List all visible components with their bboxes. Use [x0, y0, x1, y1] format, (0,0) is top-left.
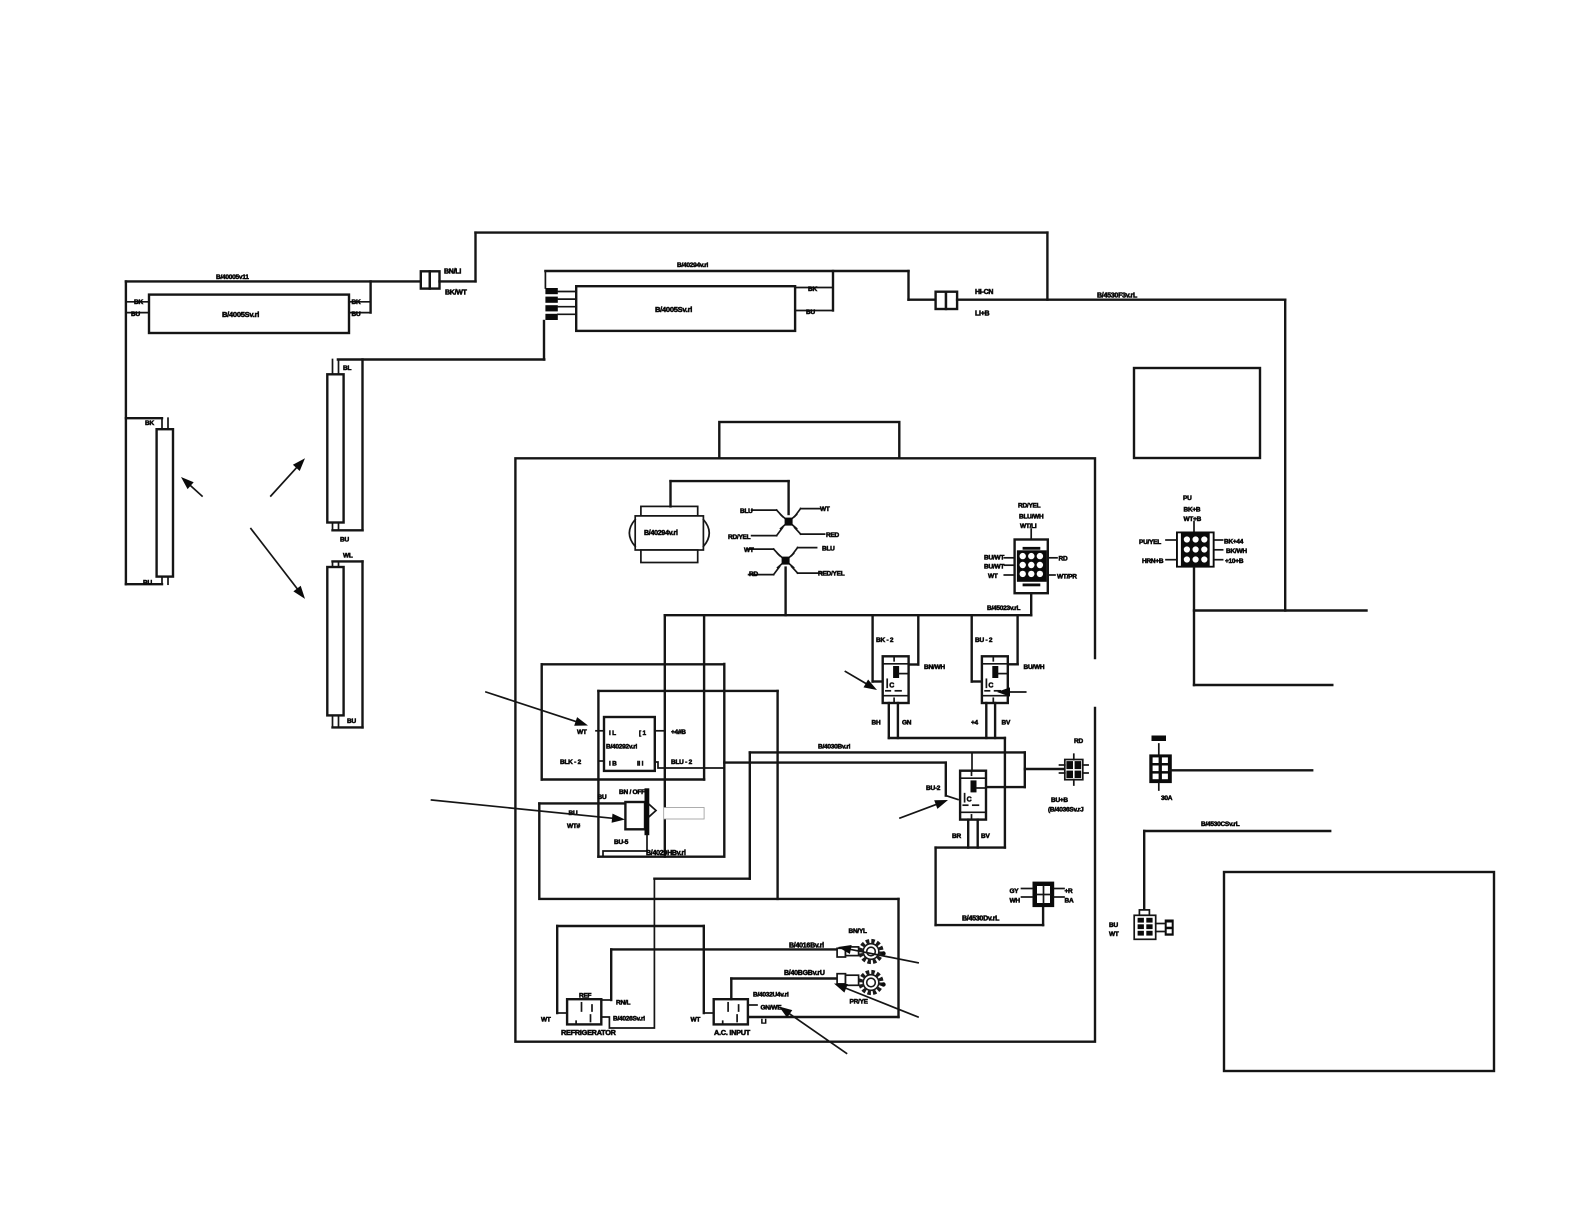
- svg-text:BU/WT: BU/WT: [984, 555, 1004, 562]
- svg-text:B/4016Bv.rl: B/4016Bv.rl: [789, 943, 824, 950]
- splice S2: [749, 548, 822, 575]
- wire box2 bottom: [598, 856, 724, 858]
- wire H1 top: [1193, 522, 1195, 532]
- svg-text:30A: 30A: [1161, 795, 1173, 802]
- lamp B/4007 tube lower-right: [327, 567, 343, 715]
- wire box1 bottom: [542, 778, 704, 780]
- svg-text:B/40292v.rl: B/40292v.rl: [606, 744, 638, 751]
- svg-text:WT+B: WT+B: [1184, 516, 1202, 523]
- svg-text:WT: WT: [744, 547, 754, 554]
- lamp B/4005S top-left: [149, 295, 349, 333]
- svg-text:(B/4036Sv.rJ: (B/4036Sv.rJ: [1048, 807, 1084, 814]
- svg-text:BU - 2: BU - 2: [975, 637, 993, 644]
- wire lamp4 top pins: [333, 561, 339, 567]
- wire lamp3 top run: [338, 358, 544, 360]
- svg-text:BU: BU: [806, 309, 815, 316]
- title label box: [719, 422, 899, 458]
- wire lamp1 pin stub R2: [349, 312, 371, 314]
- svg-text:B/4032U4v.rl: B/4032U4v.rl: [753, 992, 789, 999]
- wire down right: [1004, 738, 1006, 848]
- svg-text:GN/WE: GN/WE: [761, 1005, 783, 1012]
- terminal ring2: [837, 972, 886, 993]
- wire lamp5 bottom pins: [162, 577, 168, 585]
- connector CN2 inline: [936, 292, 958, 309]
- wire bottom run: [936, 924, 1044, 926]
- wire relay2 pin2: [1008, 615, 1018, 664]
- svg-text:BK: BK: [352, 299, 361, 306]
- svg-text:C: C: [967, 797, 972, 804]
- connector G4 B/4530D: [1022, 882, 1065, 908]
- wire lamp4 top run: [333, 560, 363, 562]
- wire to connector CN2: [909, 299, 936, 301]
- wire relay1 pin2: [909, 615, 919, 664]
- svg-text:B/40294v.rl: B/40294v.rl: [644, 530, 678, 537]
- svg-text:BV: BV: [981, 833, 990, 840]
- svg-text:B/4026Sv.rl: B/4026Sv.rl: [613, 1016, 645, 1023]
- svg-text:BU: BU: [131, 311, 140, 318]
- wire lamp1 pin stub L1: [126, 301, 149, 303]
- svg-text:BA: BA: [1065, 898, 1074, 905]
- relay K1: [883, 656, 909, 703]
- svg-text:BK/WT: BK/WT: [445, 290, 468, 297]
- svg-text:BV: BV: [1002, 720, 1011, 727]
- lamp B/4007 tube upper-right: [327, 374, 343, 522]
- wire lamp1 pin stub R1: [349, 301, 371, 303]
- arrow to ring1: [838, 945, 918, 963]
- arrow to relay3: [900, 800, 948, 818]
- wire neutral drop L: [557, 926, 567, 1013]
- svg-text:BU-5: BU-5: [614, 839, 629, 846]
- svg-text:WT#: WT#: [567, 823, 581, 830]
- wire bus upper: [750, 751, 1025, 753]
- wire box2 top: [598, 690, 777, 692]
- wire S2 run: [1144, 830, 1330, 832]
- svg-text:B/4029HBv.rl: B/4029HBv.rl: [646, 850, 686, 857]
- wire to bus corner: [654, 752, 749, 878]
- label PU bar: [1152, 736, 1167, 742]
- svg-text:BU: BU: [143, 580, 152, 587]
- wire outlet enclosure top: [542, 898, 899, 900]
- svg-text:BU: BU: [347, 718, 356, 725]
- box placeholder R2: [1224, 872, 1494, 1071]
- svg-text:BK+B: BK+B: [1184, 507, 1201, 514]
- wire neutral run: [557, 925, 704, 927]
- svg-text:RD: RD: [749, 571, 758, 578]
- svg-text:C: C: [889, 682, 894, 689]
- svg-text:B/4005Sv.rl: B/4005Sv.rl: [655, 305, 692, 314]
- svg-text:BK: BK: [145, 420, 154, 427]
- svg-text:GN: GN: [902, 720, 912, 727]
- svg-text:WT: WT: [541, 1017, 551, 1024]
- svg-text:C: C: [988, 682, 993, 689]
- svg-text:Il I: Il I: [637, 761, 644, 768]
- wire drop relay2 coil: [972, 615, 982, 681]
- svg-text:I B: I B: [609, 761, 617, 768]
- wire lamp3 bottom pins: [333, 523, 339, 531]
- connector S2: [1134, 910, 1174, 939]
- connector P8 B/4036S: [1060, 754, 1089, 785]
- svg-text:B/40BGBv.rU: B/40BGBv.rU: [784, 970, 825, 977]
- wire AC stub: [749, 1004, 757, 1006]
- wire H1 right stubs: [1215, 540, 1223, 560]
- svg-text:BK - 2: BK - 2: [876, 637, 894, 644]
- wire splice to bus: [784, 568, 786, 616]
- svg-text:+10+B: +10+B: [1225, 558, 1244, 565]
- wire lamp1 right riser: [369, 281, 371, 312]
- svg-text:B/40005v11: B/40005v11: [216, 274, 249, 281]
- svg-text:+4: +4: [971, 720, 979, 727]
- wire switch feed: [539, 803, 625, 899]
- svg-text:WT: WT: [691, 1017, 701, 1024]
- main assembly box: [515, 458, 1095, 1041]
- arrow to module: [486, 692, 588, 726]
- svg-text:BU: BU: [340, 537, 349, 544]
- svg-text:B/40294v.rl: B/40294v.rl: [677, 262, 709, 269]
- wire lamp2 top run: [545, 270, 908, 272]
- wire AC hot riser: [731, 979, 837, 1000]
- arrow to lower lamp: [251, 529, 305, 599]
- wire block riser: [544, 271, 546, 288]
- svg-text:REF: REF: [579, 993, 592, 1000]
- wire motor to splice: [671, 481, 789, 514]
- svg-text:BN / OFF: BN / OFF: [619, 789, 645, 796]
- svg-text:B/4005Sv.rl: B/4005Sv.rl: [222, 310, 259, 319]
- svg-text:BR: BR: [952, 833, 961, 840]
- wire box1 top: [542, 663, 725, 665]
- wire lamp1 pin stub L2: [126, 312, 149, 314]
- wire switch bottom: [603, 835, 647, 857]
- svg-text:WT: WT: [820, 506, 830, 513]
- wire drop B: [703, 615, 705, 779]
- connector H1 hatched: [1176, 532, 1215, 568]
- lamp B/4005S top-center: [576, 286, 795, 331]
- svg-text:B/4530F3v.rL: B/4530F3v.rL: [1097, 293, 1138, 300]
- wire top feed lamp1: [126, 280, 421, 282]
- svg-text:RED: RED: [826, 532, 840, 539]
- wire to relay3 coil: [946, 763, 958, 800]
- wire module pin1 stub: [596, 730, 604, 732]
- wire module pin3 stub: [598, 760, 604, 762]
- arrow to upper lamp: [271, 458, 305, 496]
- svg-text:BLK - 2: BLK - 2: [560, 759, 582, 766]
- wire lamp5 top run: [126, 417, 162, 419]
- wire stub right 1: [1194, 609, 1367, 611]
- wire drop right: [1046, 233, 1048, 300]
- svg-text:WH: WH: [1010, 898, 1021, 905]
- wire lamp3 bottom run: [333, 529, 363, 531]
- svg-text:BN/WH: BN/WH: [924, 664, 945, 671]
- wire up to G4: [1042, 907, 1044, 925]
- arrow to switch: [432, 800, 626, 823]
- wire relay3 pins run: [936, 846, 1005, 848]
- wire relay2 bottom pins: [986, 703, 995, 738]
- svg-text:BU/WT: BU/WT: [984, 564, 1004, 571]
- wire CN2 to corner: [957, 299, 1285, 301]
- wire CN1 to riser: [440, 233, 476, 282]
- wire relay3 pin2: [988, 752, 1025, 787]
- svg-text:[ 1: [ 1: [639, 730, 646, 737]
- svg-text:A.C. INPUT: A.C. INPUT: [714, 1028, 751, 1037]
- svg-text:HI-CN: HI-CN: [975, 289, 993, 296]
- svg-text:BU/WH: BU/WH: [1024, 664, 1045, 671]
- svg-text:LI: LI: [761, 1019, 767, 1026]
- wire box2 left: [597, 691, 599, 857]
- svg-text:BK+44: BK+44: [1224, 539, 1244, 546]
- outlet refrigerator: [567, 999, 601, 1024]
- wire relay pins bus: [889, 737, 1005, 739]
- svg-text:BLU/WH: BLU/WH: [1019, 514, 1044, 521]
- svg-text:RD: RD: [1059, 556, 1068, 563]
- wire H1 bottom: [1193, 568, 1195, 685]
- svg-text:BU: BU: [1109, 922, 1118, 929]
- wire relay3 bottom pins: [968, 820, 978, 848]
- wire right drop: [1284, 300, 1286, 611]
- wire outlet enclosure right: [897, 899, 899, 1017]
- svg-text:RD/YEL: RD/YEL: [1018, 503, 1041, 510]
- wire module pin2 stub: [655, 730, 665, 732]
- relay K2: [982, 656, 1008, 703]
- svg-text:BN/LI: BN/LI: [444, 269, 461, 276]
- svg-text:PU: PU: [1183, 495, 1192, 502]
- wire lamp2 pin stub R1: [795, 287, 833, 289]
- switch SW1: [625, 788, 656, 835]
- svg-text:BK/WH: BK/WH: [1226, 548, 1247, 555]
- svg-text:BU: BU: [352, 311, 361, 318]
- connector CN1 inline: [421, 271, 440, 288]
- wire D1 bottom: [1030, 593, 1032, 615]
- wire refrigerator hot: [601, 879, 654, 1028]
- module B/40292: [604, 717, 655, 771]
- relay K3: [960, 771, 986, 820]
- wire down left: [934, 848, 936, 926]
- svg-text:+R: +R: [1065, 888, 1074, 895]
- wire lamp2 right riser: [832, 271, 834, 311]
- svg-text:WL: WL: [343, 553, 353, 560]
- wire S1 top tick: [1158, 744, 1160, 756]
- svg-text:RD: RD: [1074, 738, 1083, 745]
- svg-text:REFRIGERATOR: REFRIGERATOR: [561, 1028, 617, 1037]
- wire 12V bus: [665, 614, 1031, 616]
- svg-text:BU-2: BU-2: [926, 785, 941, 792]
- arrow to relay2: [997, 687, 1026, 696]
- svg-text:BH: BH: [872, 720, 881, 727]
- wire drop A: [664, 615, 666, 857]
- svg-text:BLU: BLU: [740, 508, 753, 515]
- svg-text:BU: BU: [598, 794, 607, 801]
- wire D1 top: [1030, 529, 1032, 539]
- svg-text:WT/PR: WT/PR: [1057, 574, 1077, 581]
- wire lamp5 bottom run: [126, 583, 162, 585]
- svg-text:PR/YE: PR/YE: [850, 999, 869, 1006]
- wire drop relay1 coil: [873, 615, 883, 681]
- wire S1 bottom tick: [1158, 783, 1160, 790]
- wire bus lower: [724, 761, 946, 763]
- svg-text:BU+B: BU+B: [1051, 797, 1068, 804]
- white label patch: [664, 808, 704, 820]
- svg-text:RD/YEL: RD/YEL: [728, 534, 751, 541]
- motor B/40294: [629, 506, 709, 562]
- svg-text:BL: BL: [343, 365, 351, 372]
- wire lamp4 bottom run: [333, 726, 363, 728]
- svg-text:B/4530Dv.rL: B/4530Dv.rL: [962, 916, 1000, 923]
- wire neutral drop R: [704, 926, 714, 1013]
- wire lamp1 left rail: [125, 281, 127, 584]
- svg-text:+4#B: +4#B: [671, 729, 686, 736]
- connector S1: [1149, 754, 1172, 783]
- svg-text:WT: WT: [577, 729, 587, 736]
- wire S1 right: [1170, 769, 1312, 771]
- wire block stubs: [558, 292, 576, 315]
- wire lamp3 top pins: [333, 360, 339, 375]
- wire lamp2 drop: [907, 271, 909, 300]
- connector lamp2 4-pin block: [545, 288, 557, 320]
- box placeholder R1: [1134, 368, 1260, 458]
- svg-text:B/45023v.rL: B/45023v.rL: [987, 605, 1021, 612]
- connector D1 B/45023: [1015, 540, 1048, 594]
- wire box1 left: [541, 664, 543, 779]
- svg-text:RED/YEL: RED/YEL: [818, 571, 845, 578]
- svg-text:B/4530CSv.rL: B/4530CSv.rL: [1201, 821, 1240, 828]
- arrow to left lamp: [181, 477, 202, 496]
- arrow to ring2: [834, 984, 918, 1018]
- wire lamp3 right rail: [361, 360, 363, 531]
- wire lamp4 bottom pins: [333, 715, 339, 727]
- wire box2 right: [776, 691, 778, 899]
- splice S1: [752, 509, 825, 536]
- svg-text:RN/L: RN/L: [616, 1000, 630, 1007]
- wire ground drop: [601, 949, 611, 1000]
- wire lamp5 top pins: [162, 418, 168, 429]
- svg-text:BLU: BLU: [822, 546, 835, 553]
- wire to P8: [1025, 768, 1063, 770]
- svg-text:WT: WT: [988, 573, 998, 580]
- wire box1 right: [723, 664, 725, 857]
- svg-text:BK: BK: [134, 299, 143, 306]
- wire lamp4 right rail: [361, 561, 363, 727]
- svg-text:BN/YL: BN/YL: [849, 928, 868, 935]
- svg-text:I L: I L: [609, 730, 616, 737]
- svg-text:HRN+B: HRN+B: [1142, 558, 1164, 565]
- wire stub right 2: [1194, 684, 1332, 686]
- arrow to relay1: [845, 672, 877, 691]
- outlet AC input: [714, 999, 748, 1024]
- wire module pin4 run: [655, 762, 725, 768]
- svg-text:BK: BK: [808, 286, 817, 293]
- svg-text:PU/YEL: PU/YEL: [1139, 539, 1161, 546]
- svg-text:BLU - 2: BLU - 2: [671, 759, 693, 766]
- wire S2 riser: [1143, 831, 1145, 914]
- terminal ring1: [837, 941, 886, 962]
- svg-text:GY: GY: [1010, 888, 1020, 895]
- svg-text:WT: WT: [1109, 931, 1119, 938]
- wire outlet enclosure bottom: [749, 1016, 899, 1018]
- svg-text:WT/LI: WT/LI: [1020, 523, 1037, 530]
- svg-text:LI+B: LI+B: [975, 311, 990, 318]
- svg-text:B/4030Bv.rl: B/4030Bv.rl: [818, 744, 851, 751]
- wire H1 left stubs: [1166, 540, 1176, 560]
- wire lamp2 pin stub R2: [795, 310, 833, 312]
- wire relay3 top tick: [971, 752, 973, 770]
- wire top run: [476, 231, 1048, 233]
- lamp B/4007 tube left: [157, 429, 173, 576]
- wire relay1 bottom pins: [889, 703, 898, 738]
- wire ground run: [611, 948, 837, 950]
- arrow to AC input: [779, 1007, 847, 1054]
- wire D1 right stubs: [1048, 558, 1057, 575]
- wire block drop: [543, 321, 545, 360]
- wire D1 left stubs: [1004, 558, 1014, 575]
